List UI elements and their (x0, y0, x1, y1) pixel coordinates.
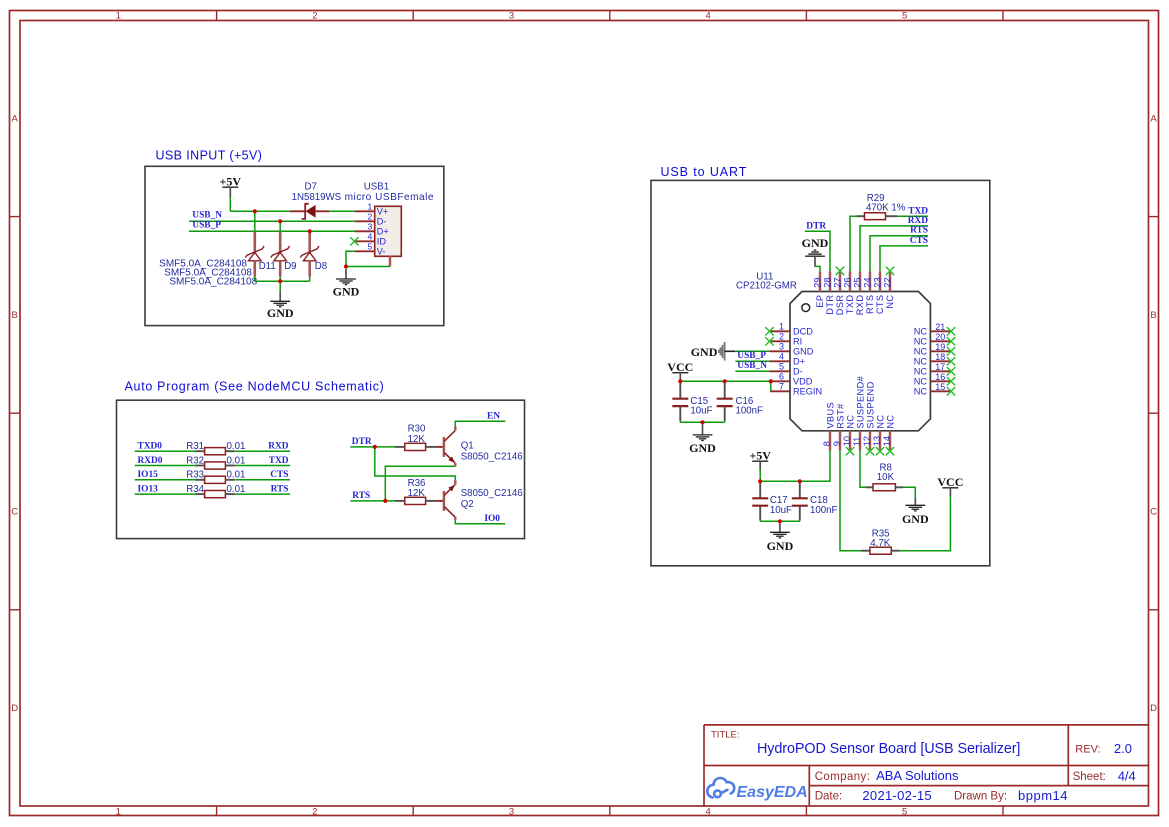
label C17 (770, 495, 788, 506)
net label RTS (271, 485, 289, 495)
pin 16 NC of U11 (914, 372, 951, 387)
pin 9 RST# of U11 (bottom) (832, 403, 845, 451)
transistor Q1 (444, 431, 455, 463)
svg-text:Drawn By:: Drawn By: (954, 791, 1007, 803)
svg-text:10uF: 10uF (770, 505, 792, 516)
value label SMF5.0A_C284108 (D11) (159, 259, 247, 270)
value label 100nF (C16) (736, 406, 764, 417)
label CP2102-GMR (736, 281, 797, 292)
svg-text:Sheet:: Sheet: (1073, 771, 1106, 783)
svg-text:NC: NC (914, 387, 928, 397)
label R30 (408, 424, 426, 435)
pin 15 NC of U11 (914, 382, 951, 397)
title block Drawn By label (954, 791, 1007, 803)
pin 6 VDD of U11 (770, 371, 813, 386)
junction TVS bus / GND (278, 279, 282, 283)
svg-text:USB_P: USB_P (192, 220, 221, 230)
svg-text:D+: D+ (793, 357, 805, 367)
no-connect X on U11 pin 27 DSR (836, 267, 844, 275)
label 1N5819WS (292, 192, 342, 203)
svg-text:1: 1 (779, 321, 784, 331)
svg-text:GND: GND (793, 347, 814, 357)
connector USB1 pin 5 (355, 250, 375, 252)
label R31 (186, 441, 204, 452)
pin 18 NC of U11 (914, 352, 951, 367)
svg-text:10K: 10K (877, 472, 895, 483)
label R34 (186, 484, 204, 495)
svg-text:R34: R34 (186, 484, 204, 495)
pin 14 NC of U11 (bottom) (882, 415, 895, 451)
svg-text:NC: NC (914, 357, 928, 367)
pin 22 NC of U11 (top) (882, 271, 895, 308)
junction C17 bus / GND (778, 519, 782, 523)
svg-text:RXD: RXD (268, 442, 289, 452)
svg-text:470K 1%: 470K 1% (866, 202, 906, 213)
section box USB INPUT (145, 166, 444, 325)
capacitor C18 (792, 481, 808, 520)
wire D9 upper (279, 221, 281, 231)
svg-text:10: 10 (842, 436, 852, 446)
svg-text:15: 15 (935, 382, 945, 392)
section box Auto Program (117, 400, 525, 538)
power port VCC (left) (667, 360, 693, 382)
ground GND under C17 C18 (767, 521, 794, 553)
svg-text:RXD0: RXD0 (138, 456, 163, 466)
net label RTS (uart) (910, 226, 928, 236)
no-connect X on U11 pin 16 (947, 377, 955, 385)
net label RXD0 (138, 456, 163, 466)
svg-text:REGIN: REGIN (793, 387, 822, 397)
resistor R32 (195, 462, 235, 469)
svg-text:0.01: 0.01 (227, 484, 246, 495)
title block grid (704, 725, 1149, 806)
value label 10K (R8) (877, 472, 895, 483)
svg-text:+5V: +5V (749, 448, 771, 462)
svg-text:12K: 12K (408, 434, 426, 445)
wire to GND under diodes (279, 281, 281, 291)
net label IO0 (484, 514, 500, 524)
svg-text:NC: NC (875, 415, 885, 429)
svg-text:100nF: 100nF (736, 406, 764, 417)
wire TVS ground bus (255, 277, 310, 282)
wire RTS to R36 (385, 500, 395, 502)
value label 0.01 (R34) (227, 484, 246, 495)
svg-text:EN: EN (487, 411, 500, 421)
svg-text:5: 5 (779, 361, 784, 371)
no-connect X on U11 pin 1 (765, 327, 773, 335)
svg-text:1: 1 (367, 201, 372, 211)
pin 20 NC of U11 (914, 332, 951, 347)
junction C bus / GND (700, 420, 704, 424)
wire pin 26 to R29 (850, 216, 856, 271)
net label DTR (uart) (806, 222, 826, 232)
svg-text:0.01: 0.01 (227, 470, 246, 481)
wire D11 upper (254, 211, 256, 231)
svg-text:R33: R33 (186, 470, 204, 481)
svg-text:21: 21 (935, 322, 945, 332)
svg-text:ID: ID (377, 236, 387, 246)
wire D7 to USB1 pin1 (329, 210, 354, 212)
wire DTR (350, 446, 375, 448)
svg-text:NC: NC (914, 327, 928, 337)
connector USB1 shield pin (389, 256, 392, 266)
net label IO15 (138, 470, 159, 480)
svg-text:23: 23 (872, 277, 882, 287)
svg-text:2: 2 (779, 331, 784, 341)
svg-text:4: 4 (367, 231, 372, 241)
net label RTS (auto program) (352, 491, 370, 501)
value label 470K 1% (866, 202, 906, 213)
pin 23 CTS of U11 (top) (872, 271, 885, 314)
label R36 (408, 478, 426, 489)
no-connect X on U11 pin 22 NC (886, 267, 894, 275)
ground GND at U11 pin 3 (691, 342, 736, 361)
title block Date label (815, 791, 843, 803)
pin 1 DCD of U11 (770, 321, 813, 336)
wire VDD to REGIN (770, 381, 772, 391)
svg-text:USB INPUT (+5V): USB INPUT (+5V) (156, 149, 263, 163)
wire +5V rail (230, 210, 290, 212)
value label 4.7K (R35) (870, 538, 890, 549)
pin 5 D- of U11 (770, 361, 803, 376)
connector USB1 pin names (377, 206, 389, 256)
label R33 (186, 470, 204, 481)
svg-text:DTR: DTR (825, 295, 835, 315)
transistor Q2 (444, 485, 455, 517)
sheet border row ticks right (1149, 217, 1159, 610)
junction +5V / D11 (253, 209, 257, 213)
svg-text:ABA Solutions: ABA Solutions (876, 768, 959, 783)
no-connect X on U11 pin 15 (947, 387, 955, 395)
svg-text:3: 3 (509, 10, 514, 21)
junction USB_N / D9 (278, 219, 282, 223)
pin 11 SUSPEND# of U11 (bottom) (852, 375, 865, 450)
label Q1 (461, 441, 474, 452)
label C16 (736, 396, 754, 407)
net label CTS (uart) (910, 236, 928, 246)
pin 19 NC of U11 (914, 342, 951, 357)
svg-text:3: 3 (779, 341, 784, 351)
title block Sheet label (1073, 771, 1106, 783)
svg-text:Q1: Q1 (461, 441, 474, 452)
tvs diode D8 (300, 231, 319, 276)
svg-text:VBUS: VBUS (825, 402, 835, 429)
wire Q1 collector to EN (455, 421, 505, 430)
svg-text:C: C (11, 507, 18, 518)
svg-text:19: 19 (935, 342, 945, 352)
wire GND to pin 29 EP (815, 266, 820, 271)
svg-text:NC: NC (914, 367, 928, 377)
svg-text:D-: D- (793, 367, 803, 377)
svg-text:USB_P: USB_P (737, 351, 766, 361)
svg-text:13: 13 (872, 436, 882, 446)
wire RTS right (235, 493, 290, 495)
ground GND under USB1 (333, 269, 360, 298)
sheet column labels top 1-5 (116, 10, 908, 21)
section box USB to UART (651, 180, 990, 565)
svg-text:R32: R32 (186, 455, 204, 466)
svg-text:C: C (1150, 507, 1157, 518)
no-connect X on U11 pin 2 (765, 337, 773, 345)
svg-text:GND: GND (333, 284, 360, 298)
net label DTR (auto program) (352, 437, 372, 447)
svg-text:GND: GND (767, 539, 794, 553)
wire +5V stem (229, 197, 231, 211)
net label CTS (270, 470, 288, 480)
wire USB_N to pin 5 (735, 370, 770, 372)
value label SMF5.0A_C284108 (D8) (169, 277, 257, 288)
svg-text:bppm14: bppm14 (1018, 788, 1068, 803)
svg-text:B: B (1150, 310, 1156, 321)
wire R35 to VCC (900, 496, 951, 551)
junction rail/C18 (798, 479, 802, 483)
wire pin 23 to CTS (880, 246, 928, 271)
label D9 (284, 261, 296, 272)
svg-text:8: 8 (822, 441, 832, 446)
svg-text:4: 4 (705, 10, 710, 21)
svg-text:S8050_C2146: S8050_C2146 (461, 488, 523, 499)
title block title text (757, 741, 1020, 757)
svg-text:V+: V+ (377, 206, 389, 216)
title block date value (862, 788, 932, 803)
wire GND to pin 3 (736, 350, 771, 352)
svg-text:7: 7 (779, 381, 784, 391)
wire VCC rail (680, 380, 770, 382)
pin 3 GND of U11 (770, 341, 814, 356)
svg-text:RTS: RTS (910, 226, 928, 236)
label R32 (186, 455, 204, 466)
label micro USBFemale (345, 192, 434, 203)
label C18 (810, 495, 828, 506)
svg-text:22: 22 (882, 277, 892, 287)
junction RTS (383, 499, 387, 503)
section title Auto Program (125, 380, 385, 394)
EasyEDA logo (707, 778, 807, 801)
power port +5V (220, 174, 242, 197)
svg-text:IO15: IO15 (138, 470, 159, 480)
no-connect X on USB1 pin 4 ID (350, 237, 358, 245)
svg-text:24: 24 (862, 277, 872, 287)
wire V- GND stem (345, 267, 347, 270)
value label S8050_C2146 (Q1) (461, 452, 523, 463)
wire +5V stem (uart) (759, 470, 761, 481)
pin 17 NC of U11 (914, 362, 951, 377)
value label S8050_C2146 (Q2) (461, 488, 523, 499)
svg-text:2.0: 2.0 (1114, 741, 1132, 756)
sheet border row ticks left (10, 217, 21, 610)
wire RXD right (235, 450, 290, 452)
no-connect X on U11 bottom pin at x=890 (886, 447, 894, 455)
pin 24 RTS of U11 (top) (862, 271, 875, 314)
svg-text:V-: V- (377, 246, 386, 256)
wire DTR to pin 28 (805, 231, 830, 271)
wire Q2 emitter to DTR (375, 447, 456, 485)
svg-text:2: 2 (367, 211, 372, 221)
resistor R34 (195, 491, 235, 498)
svg-text:EasyEDA: EasyEDA (737, 784, 808, 801)
svg-text:D-: D- (377, 216, 387, 226)
pin 8 VBUS of U11 (bottom) (822, 402, 835, 451)
tvs diode D11 (245, 231, 264, 276)
svg-text:RI: RI (793, 337, 802, 347)
svg-text:CP2102-GMR: CP2102-GMR (736, 281, 797, 292)
svg-text:SMF5.0A_C284108: SMF5.0A_C284108 (169, 277, 257, 288)
wire RXD0 left (135, 465, 196, 467)
no-connect X on U11 pin 18 (947, 357, 955, 365)
net label RXD (uart) (908, 216, 929, 226)
pin 12 SUSPEND of U11 (bottom) (862, 381, 875, 450)
resistor R30 (395, 443, 444, 450)
no-connect X on U11 bottom pin at x=870 (866, 447, 874, 455)
title block Company label (815, 771, 871, 783)
svg-text:TXD: TXD (269, 456, 289, 466)
svg-text:1N5819WS: 1N5819WS (292, 192, 342, 203)
title block REV label (1075, 744, 1100, 756)
net label IO13 (138, 485, 159, 495)
svg-text:2: 2 (312, 10, 317, 21)
svg-text:DTR: DTR (352, 437, 372, 447)
svg-text:12: 12 (862, 436, 872, 446)
no-connect X on U11 pin 17 (947, 367, 955, 375)
net label USB_N (uart) (737, 361, 767, 371)
svg-text:NC: NC (914, 337, 928, 347)
label D8 (315, 261, 327, 272)
svg-text:NC: NC (885, 415, 895, 429)
svg-text:Date:: Date: (815, 791, 843, 803)
pin 29 EP of U11 (top) (812, 271, 825, 307)
ground GND under C15 C16 (689, 422, 716, 455)
wire pin 24 to RTS (870, 236, 928, 272)
svg-text:CTS: CTS (910, 236, 928, 246)
label U11 (756, 271, 773, 282)
wire C15 C16 ground bus (680, 421, 724, 422)
title block rev value (1114, 741, 1132, 756)
svg-text:HydroPOD Sensor Board [USB Ser: HydroPOD Sensor Board [USB Serializer] (757, 741, 1020, 757)
op-amp U11 CP2102-GMR body (790, 292, 930, 431)
power port VCC (right) (937, 475, 963, 496)
wire RTS (350, 500, 385, 502)
svg-text:RTS: RTS (271, 485, 289, 495)
net label USB_N (192, 210, 222, 220)
svg-text:0.01: 0.01 (227, 455, 246, 466)
svg-text:RST#: RST# (835, 403, 845, 429)
label D7 (305, 182, 317, 193)
svg-text:26: 26 (842, 277, 852, 287)
svg-text:3: 3 (367, 221, 372, 231)
resistor R36 (395, 497, 444, 504)
label R29 (867, 193, 885, 204)
value label 12K (R36) (408, 488, 426, 499)
net label TXD (269, 456, 289, 466)
label R8 (880, 462, 892, 473)
pin 4 D+ of U11 (770, 351, 805, 366)
svg-text:Company:: Company: (815, 771, 871, 783)
svg-text:D: D (11, 703, 18, 714)
svg-text:D+: D+ (377, 226, 389, 236)
svg-text:USB to UART: USB to UART (661, 165, 748, 179)
resistor R33 (195, 476, 235, 483)
svg-text:SUSPEND: SUSPEND (865, 381, 875, 428)
svg-text:SUSPEND#: SUSPEND# (855, 375, 865, 428)
pin 13 NC of U11 (bottom) (872, 415, 885, 451)
connector USB1 pin 3 (355, 230, 375, 232)
sheet row labels right A-D (1150, 113, 1157, 714)
svg-text:USB_N: USB_N (192, 210, 222, 220)
svg-text:GND: GND (802, 236, 829, 250)
wire IO15 left (135, 479, 196, 481)
wire pin 25 to RXD (860, 226, 928, 271)
svg-text:DTR: DTR (806, 222, 826, 232)
svg-text:16: 16 (935, 372, 945, 382)
net label TXD (uart) (908, 206, 928, 216)
value label 0.01 (R32) (227, 455, 246, 466)
connector USB1 body (375, 206, 402, 256)
svg-text:4: 4 (779, 351, 784, 361)
svg-text:D11: D11 (259, 261, 276, 272)
pin 27 DSR of U11 (top) (832, 271, 845, 315)
junction USB_P / D8 (308, 229, 312, 233)
svg-text:NC: NC (845, 415, 855, 429)
net label USB_P (uart) (737, 351, 766, 361)
wire Q2 collector to IO0 (455, 517, 505, 524)
capacitor C17 (752, 481, 768, 520)
ground GND at U11 EP (802, 236, 829, 266)
value label 100nF (C18) (810, 505, 838, 516)
svg-text:25: 25 (852, 277, 862, 287)
svg-text:EP: EP (815, 295, 825, 308)
label Q2 (461, 499, 474, 510)
sheet row labels left A-D (11, 113, 18, 714)
svg-text:GND: GND (902, 512, 929, 526)
value label SMF5.0A_C284108 (D9) (164, 268, 252, 279)
svg-text:0.01: 0.01 (227, 441, 246, 452)
ground GND under R8 (902, 499, 929, 526)
no-connect X on U11 pin 19 (947, 347, 955, 355)
pin 2 RI of U11 (770, 331, 802, 346)
title block drawn by value (1018, 788, 1068, 803)
sheet column labels bottom 1-5 (116, 806, 908, 817)
wire CTS right (235, 479, 290, 481)
svg-text:18: 18 (935, 352, 945, 362)
capacitor C15 (672, 381, 688, 421)
svg-text:6: 6 (779, 371, 784, 381)
section title USB INPUT (+5V) (156, 149, 263, 163)
wire RST# to R35 (840, 451, 861, 551)
net label EN (487, 411, 500, 421)
junction rail/VDD (769, 379, 773, 383)
sheet border column ticks top (217, 11, 1003, 21)
svg-text:28: 28 (822, 277, 832, 287)
svg-text:12K: 12K (408, 488, 426, 499)
resistor R29 (856, 213, 897, 220)
wire TXD0 left (135, 450, 196, 452)
svg-text:NC: NC (885, 295, 895, 309)
pin 7 REGIN of U11 (770, 381, 822, 396)
svg-text:2021-02-15: 2021-02-15 (862, 788, 932, 803)
svg-text:D: D (1150, 703, 1157, 714)
svg-text:5: 5 (367, 241, 372, 251)
svg-text:3: 3 (509, 806, 514, 817)
wire IO13 left (135, 493, 196, 495)
svg-text:NC: NC (914, 347, 928, 357)
svg-text:TXD: TXD (908, 206, 928, 216)
title block company value (876, 768, 959, 783)
svg-text:11: 11 (852, 437, 862, 447)
capacitor C16 (717, 381, 733, 421)
svg-text:14: 14 (882, 436, 892, 446)
svg-text:29: 29 (812, 277, 822, 287)
tvs diode D9 (271, 231, 290, 276)
